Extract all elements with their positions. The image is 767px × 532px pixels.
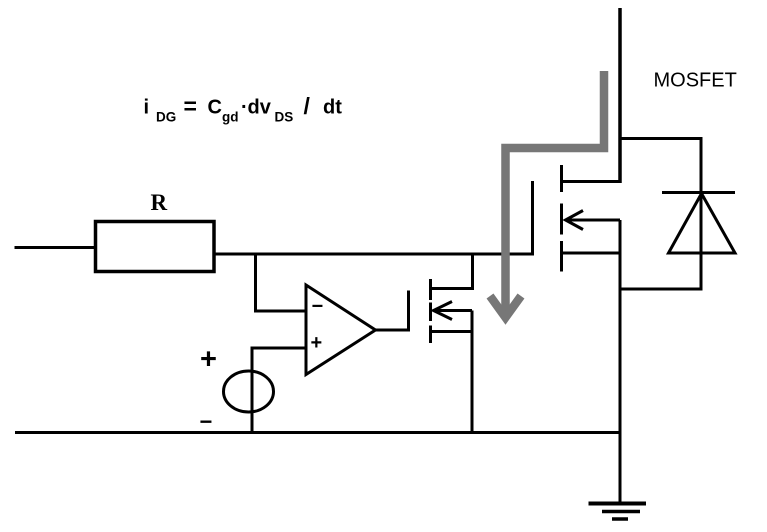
svg-text:−: −	[312, 296, 324, 318]
svg-text:DGgdDS: DGgdDS	[156, 110, 293, 125]
svg-text:MOSFET: MOSFET	[654, 70, 737, 92]
svg-text:+: +	[311, 332, 323, 354]
svg-text:+: +	[200, 344, 217, 376]
svg-text:−: −	[200, 409, 213, 434]
svg-text:R: R	[151, 190, 168, 215]
